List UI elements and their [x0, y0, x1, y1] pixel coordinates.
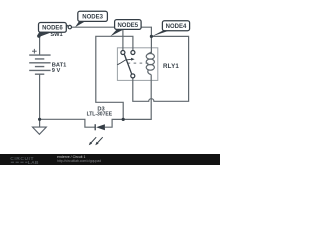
LED D3 cathode bar: [94, 124, 96, 130]
svg-text:SW1: SW1: [50, 32, 62, 38]
relay RLY1 mechanical dashed link: [128, 62, 150, 64]
svg-text:LAB: LAB: [28, 160, 39, 165]
LED light arrow 2: [96, 137, 102, 144]
ground symbol: [33, 127, 47, 134]
svg-text:NODE3: NODE3: [82, 15, 103, 21]
relay RLY1 coil: [148, 51, 152, 54]
wire battery top lead: [39, 37, 41, 56]
footer logo waveform: [11, 161, 28, 163]
relay RLY1 contact A: [121, 51, 125, 55]
node label NODE3: [78, 11, 108, 21]
battery plus sign: [32, 49, 37, 54]
switch SW1 contact circle: [68, 25, 71, 28]
junction dot node4/coil top: [150, 35, 153, 38]
ground junction dot: [38, 118, 41, 121]
svg-text:NODE6: NODE6: [42, 26, 63, 32]
wire relay contact A stub: [122, 27, 124, 50]
svg-text:NODE4: NODE4: [166, 24, 187, 30]
wire LED anode jog to coil return corner: [105, 75, 151, 128]
node label NODE5: [115, 20, 142, 30]
wire top rail from switch to coil top: [72, 27, 152, 53]
wire node4 branch right side with hop over coil return: [133, 36, 189, 101]
relay RLY1 lever: [124, 55, 131, 74]
LED light arrow 1: [90, 137, 96, 144]
svg-text:http://circuitlab.com/c/gqupad: http://circuitlab.com/c/gqupad: [57, 159, 101, 163]
relay RLY1 common contact C: [131, 74, 135, 78]
wire bottom rail left to LED cathode jog: [40, 119, 95, 127]
switch SW1 pivot dot: [37, 34, 40, 37]
LED D3 triangle: [96, 124, 105, 130]
battery BAT1 plates: [29, 55, 50, 70]
svg-text:9 V: 9 V: [52, 68, 61, 74]
relay RLY1 body box: [117, 48, 157, 81]
node label NODE6: [39, 23, 67, 33]
wire battery bottom lead to ground: [39, 74, 41, 127]
footer bar: [0, 154, 220, 165]
node label NODE4: [162, 21, 189, 31]
wire node5 branch: [96, 36, 133, 119]
svg-text:RLY1: RLY1: [163, 63, 179, 70]
junction dot bottom rail: [122, 118, 125, 121]
svg-text:LTL-307EE: LTL-307EE: [87, 112, 113, 118]
svg-text:NODE5: NODE5: [117, 23, 138, 29]
relay RLY1 contact B: [131, 51, 135, 55]
relay RLY1 actuator arrow: [117, 59, 131, 64]
switch SW1 lever: [38, 25, 68, 36]
